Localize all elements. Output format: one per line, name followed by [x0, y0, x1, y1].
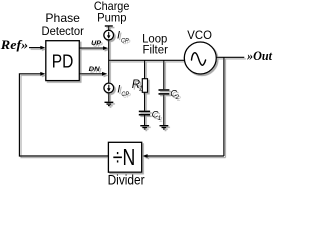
svg-text:CP: CP: [121, 37, 129, 44]
svg-text:»Out: »Out: [246, 49, 272, 63]
svg-text:1: 1: [158, 115, 162, 122]
svg-text:Divider: Divider: [108, 173, 145, 185]
svg-text:1: 1: [139, 86, 143, 93]
svg-text:DN: DN: [89, 66, 101, 73]
svg-text:Pump: Pump: [97, 11, 127, 25]
svg-text:PD: PD: [52, 52, 74, 73]
svg-text:÷N: ÷N: [113, 144, 136, 170]
svg-text:Filter: Filter: [143, 44, 169, 56]
svg-text:UP: UP: [91, 40, 101, 47]
svg-text:Ref»: Ref»: [0, 38, 28, 52]
svg-text:I: I: [117, 83, 120, 95]
svg-text:Detector: Detector: [42, 24, 84, 38]
svg-text:CP: CP: [121, 91, 129, 98]
svg-text:I: I: [117, 30, 120, 42]
svg-text:2: 2: [175, 94, 180, 101]
svg-text:VCO: VCO: [187, 30, 212, 42]
